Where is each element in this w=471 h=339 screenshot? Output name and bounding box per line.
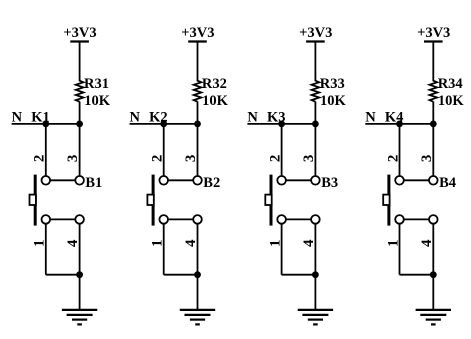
svg-text:R33: R33 <box>320 76 345 92</box>
resistor R34 body (zigzag) <box>429 77 437 101</box>
svg-text:10K: 10K <box>438 93 465 109</box>
svg-text:3: 3 <box>65 155 81 163</box>
wire from node N K2 down to switch B2 pin 2 <box>163 124 165 180</box>
wire from switch B1 pin 4 down to ground rail <box>79 224 81 275</box>
switch B1 lower contact bar (pin1-pin4) <box>46 218 80 220</box>
ground symbol (column 2) <box>180 310 215 325</box>
switch B4 pin 1 terminal circle <box>395 215 404 224</box>
svg-text:2: 2 <box>267 155 283 163</box>
switch B4 pin 4 terminal circle <box>429 215 438 224</box>
push button B3 actuator bar <box>270 175 273 226</box>
wire: node N K4 horizontal rail <box>365 123 433 125</box>
wire from +3V3 rail to resistor R32 <box>197 42 199 78</box>
junction dot at node N K1 / pin 2 branch <box>42 121 49 128</box>
wire from node N K2 down to switch B2 pin 3 <box>197 124 199 180</box>
wire from resistor R34 to node N K4 <box>432 102 434 124</box>
switch B2 pin 3 terminal circle <box>193 176 202 185</box>
junction dot at bottom rail of B1 <box>76 271 83 278</box>
resistor R31 body (zigzag) <box>76 77 84 101</box>
junction dot at node N K1 / pin 3 branch <box>76 121 83 128</box>
svg-text:B4: B4 <box>439 175 456 191</box>
wire from node N K3 down to switch B3 pin 2 <box>281 124 283 180</box>
switch B2 upper contact bar (pin2-pin3) <box>164 179 198 181</box>
wire from bottom rail of B4 to ground symbol <box>432 275 434 310</box>
junction dot at bottom rail of B3 <box>312 271 319 278</box>
svg-text:3: 3 <box>419 155 435 163</box>
power +3V3 rail bar symbol <box>306 40 325 42</box>
switch B2 pin 2 terminal circle <box>159 176 168 185</box>
switch B1 pin 4 terminal circle <box>75 215 84 224</box>
wire from bottom rail of B1 to ground symbol <box>79 275 81 310</box>
wire: bottom rail joining pin1 and pin4 of B4 <box>400 274 434 276</box>
push button B1 actuator cap <box>30 195 36 205</box>
svg-text:3: 3 <box>301 155 317 163</box>
wire from node N K1 down to switch B1 pin 2 <box>45 124 47 180</box>
svg-text:10K: 10K <box>320 93 347 109</box>
switch B3 pin 4 terminal circle <box>311 215 320 224</box>
switch B1 pin 1 terminal circle <box>42 215 51 224</box>
junction dot at bottom rail of B4 <box>430 271 437 278</box>
junction dot at node N K2 / pin 3 branch <box>194 121 201 128</box>
wire: bottom rail joining pin1 and pin4 of B3 <box>282 274 316 276</box>
power +3V3 rail bar symbol <box>424 40 443 42</box>
wire from switch B4 pin 1 down to ground rail <box>399 224 401 275</box>
svg-text:3: 3 <box>183 155 199 163</box>
svg-text:R34: R34 <box>438 76 463 92</box>
resistor R32 body (zigzag) <box>194 77 202 101</box>
wire from +3V3 rail to resistor R34 <box>432 42 434 78</box>
switch B4 upper contact bar (pin2-pin3) <box>400 179 434 181</box>
svg-text:+3V3: +3V3 <box>63 25 96 41</box>
wire from node N K3 down to switch B3 pin 3 <box>314 124 316 180</box>
wire: node N K1 horizontal rail <box>12 123 80 125</box>
wire from switch B2 pin 1 down to ground rail <box>163 224 165 275</box>
svg-text:+3V3: +3V3 <box>299 25 332 41</box>
ground symbol (column 3) <box>298 310 333 325</box>
switch B4 lower contact bar (pin1-pin4) <box>400 218 434 220</box>
wire from switch B3 pin 1 down to ground rail <box>281 224 283 275</box>
wire from resistor R33 to node N K3 <box>314 102 316 124</box>
wire from switch B3 pin 4 down to ground rail <box>314 224 316 275</box>
wire from switch B1 pin 1 down to ground rail <box>45 224 47 275</box>
push button B3 actuator cap <box>265 195 271 205</box>
power +3V3 rail bar symbol <box>70 40 89 42</box>
wire from bottom rail of B2 to ground symbol <box>197 275 199 310</box>
wire: node N K2 horizontal rail <box>130 123 198 125</box>
wire from resistor R32 to node N K2 <box>197 102 199 124</box>
switch B2 pin 4 terminal circle <box>193 215 202 224</box>
wire: bottom rail joining pin1 and pin4 of B2 <box>164 274 198 276</box>
push button B2 actuator cap <box>147 195 153 205</box>
wire: bottom rail joining pin1 and pin4 of B1 <box>46 274 80 276</box>
push button B4 actuator bar <box>387 175 390 226</box>
svg-text:R31: R31 <box>84 76 109 92</box>
junction dot at node N K3 / pin 2 branch <box>278 121 285 128</box>
switch B4 pin 3 terminal circle <box>429 176 438 185</box>
wire from switch B2 pin 4 down to ground rail <box>197 224 199 275</box>
wire from node N K4 down to switch B4 pin 3 <box>432 124 434 180</box>
switch B2 lower contact bar (pin1-pin4) <box>164 218 198 220</box>
resistor R33 body (zigzag) <box>312 77 320 101</box>
junction dot at node N K4 / pin 2 branch <box>396 121 403 128</box>
wire from +3V3 rail to resistor R33 <box>314 42 316 78</box>
push button B4 actuator cap <box>383 195 389 205</box>
switch B3 pin 1 terminal circle <box>277 215 286 224</box>
junction dot at bottom rail of B2 <box>194 271 201 278</box>
ground symbol (column 1) <box>62 310 97 325</box>
power +3V3 rail bar symbol <box>188 40 207 42</box>
junction dot at node N K2 / pin 2 branch <box>160 121 167 128</box>
svg-text:10K: 10K <box>202 93 229 109</box>
push button B1 actuator bar <box>34 175 37 226</box>
switch B3 pin 3 terminal circle <box>311 176 320 185</box>
wire from node N K1 down to switch B1 pin 3 <box>79 124 81 180</box>
switch B4 pin 2 terminal circle <box>395 176 404 185</box>
ground symbol (column 4) <box>416 310 451 325</box>
junction dot at node N K4 / pin 3 branch <box>430 121 437 128</box>
push button B2 actuator bar <box>152 175 155 226</box>
svg-text:2: 2 <box>150 155 166 163</box>
svg-text:+3V3: +3V3 <box>417 25 450 41</box>
svg-text:B3: B3 <box>321 175 338 191</box>
switch B1 pin 3 terminal circle <box>75 176 84 185</box>
junction dot at node N K3 / pin 3 branch <box>312 121 319 128</box>
svg-text:R32: R32 <box>202 76 227 92</box>
svg-text:10K: 10K <box>84 93 111 109</box>
switch B1 upper contact bar (pin2-pin3) <box>46 179 80 181</box>
svg-text:+3V3: +3V3 <box>181 25 214 41</box>
svg-text:B1: B1 <box>85 175 102 191</box>
switch B3 upper contact bar (pin2-pin3) <box>282 179 316 181</box>
wire from switch B4 pin 4 down to ground rail <box>432 224 434 275</box>
svg-text:B2: B2 <box>203 175 220 191</box>
wire from node N K4 down to switch B4 pin 2 <box>399 124 401 180</box>
switch B3 lower contact bar (pin1-pin4) <box>282 218 316 220</box>
switch B1 pin 2 terminal circle <box>42 176 51 185</box>
svg-text:2: 2 <box>385 155 401 163</box>
switch B2 pin 1 terminal circle <box>159 215 168 224</box>
wire from bottom rail of B3 to ground symbol <box>314 275 316 310</box>
switch B3 pin 2 terminal circle <box>277 176 286 185</box>
svg-text:2: 2 <box>32 155 48 163</box>
wire from +3V3 rail to resistor R31 <box>79 42 81 78</box>
wire from resistor R31 to node N K1 <box>79 102 81 124</box>
wire: node N K3 horizontal rail <box>247 123 315 125</box>
